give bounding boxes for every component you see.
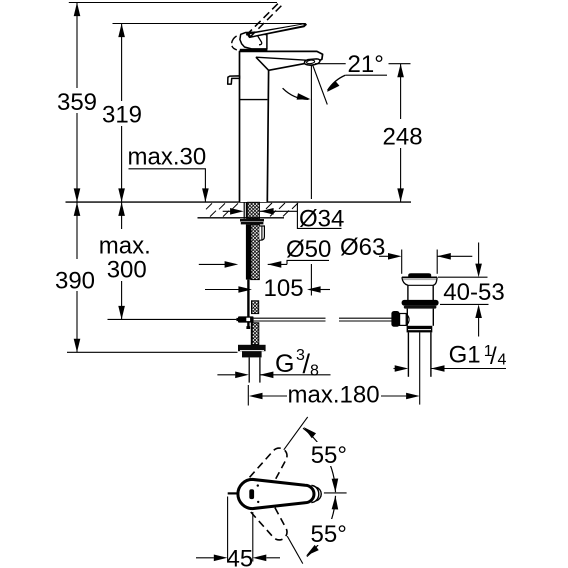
label G3/8	[217, 374, 330, 376]
ghost lever down	[235, 477, 294, 546]
label 45	[196, 497, 280, 562]
rod guide block	[259, 226, 264, 240]
handle dots	[257, 484, 259, 486]
handle pill mark	[249, 489, 254, 499]
solid handle top view	[238, 479, 314, 508]
svg-text:max.: max.	[99, 233, 151, 260]
left tick	[228, 492, 239, 494]
svg-text:45: 45	[227, 546, 254, 568]
svg-text:21°: 21°	[348, 51, 384, 78]
mounting nut	[240, 219, 264, 222]
dashed raised lever ghost	[246, 3, 281, 37]
handle cap arcs	[311, 486, 319, 503]
drain flange	[402, 276, 437, 278]
hose tails	[249, 357, 260, 382]
drain extension lines	[402, 250, 438, 274]
drain body lower	[407, 309, 433, 326]
neck front diagonal	[256, 57, 269, 70]
svg-text:Ø50: Ø50	[286, 236, 331, 263]
dashed escutcheon ghost arc	[232, 36, 237, 50]
55 deg arcs	[303, 428, 336, 492]
svg-text:359: 359	[57, 89, 97, 116]
label O50	[199, 260, 329, 264]
svg-text:55°: 55°	[311, 521, 347, 548]
svg-text:390: 390	[55, 268, 95, 295]
svg-text:G: G	[275, 350, 294, 378]
white masks for 55 texts	[306, 442, 352, 466]
slant extension lines	[284, 417, 308, 450]
label max.180	[247, 385, 249, 406]
svg-text:/: /	[490, 343, 497, 370]
wire: 359 top datum line	[69, 2, 277, 4]
vertical projection from aerator	[310, 66, 312, 200]
drain bottom band	[407, 326, 433, 333]
wire: 390 bottom datum	[67, 351, 238, 353]
wire: leader to 21deg	[315, 63, 346, 65]
svg-text:8: 8	[310, 363, 319, 380]
svg-text:G1: G1	[449, 342, 481, 369]
hose coupling nut	[238, 345, 266, 351]
label G1 1/4	[394, 368, 507, 370]
tailpipe	[408, 332, 431, 376]
21deg right arc	[328, 75, 346, 90]
label 105	[205, 289, 330, 291]
centerline	[324, 492, 347, 494]
label 40-53	[438, 243, 489, 337]
svg-text:319: 319	[102, 101, 142, 128]
vertical pop-up rod	[247, 280, 249, 327]
counter top line	[66, 201, 412, 203]
shank sliver lines	[244, 202, 246, 219]
svg-text:Ø63: Ø63	[340, 234, 385, 261]
black stripe + hose hatch below nut	[246, 224, 251, 279]
svg-text:105: 105	[264, 275, 304, 302]
tailpipe axis	[419, 332, 421, 404]
side port socket	[400, 314, 407, 326]
escutcheon inner lines	[257, 35, 261, 45]
svg-text:max.30: max.30	[128, 144, 207, 171]
drain gasket	[402, 300, 439, 306]
escutcheon (lever base)	[240, 32, 267, 49]
svg-text:248: 248	[383, 124, 423, 151]
svg-text:40-53: 40-53	[443, 279, 504, 306]
svg-text:300: 300	[107, 257, 147, 284]
counter bottom line	[198, 217, 285, 219]
faucet body outline	[240, 51, 323, 202]
hatch segment 2	[252, 301, 259, 314]
wire: dim line 359/390 vertical x=77	[76, 3, 78, 353]
wire: 248 vertical	[400, 64, 402, 202]
svg-text:max.180: max.180	[288, 381, 380, 408]
side port knob	[391, 311, 399, 327]
counter section hatch ticks	[206, 203, 298, 217]
wire: max.30 leader underline and drop	[129, 169, 206, 202]
lever blade (solid)	[246, 24, 306, 38]
svg-text:55°: 55°	[311, 442, 347, 469]
wire: 319 datum line	[113, 23, 306, 25]
pull rod knob	[228, 76, 240, 84]
svg-text:Ø34: Ø34	[299, 206, 344, 233]
drain body upper	[408, 285, 433, 300]
body joint line	[240, 99, 268, 101]
hatch segment 3	[251, 323, 258, 345]
drain washer	[404, 306, 437, 309]
wire: dim line 319/max300 vertical x=121.6	[121, 24, 123, 320]
drain plug cap	[408, 273, 431, 277]
aerator outlet	[304, 59, 319, 65]
ghost lever up	[235, 442, 294, 511]
21deg left arc	[283, 88, 309, 99]
clamp block	[238, 316, 254, 322]
label O34	[223, 203, 342, 228]
stream slant line	[313, 65, 328, 105]
svg-text:4: 4	[498, 352, 507, 369]
wire: max300 bottom datum / pop-up rod left line	[108, 318, 237, 320]
dark band under escutcheon	[240, 49, 268, 52]
shank threaded hatch	[248, 202, 260, 219]
spout inner underside line	[256, 57, 317, 61]
label O63	[379, 255, 472, 257]
rod to drain (double line with break)	[254, 318, 392, 321]
wire: second 21deg ray	[346, 74, 387, 76]
